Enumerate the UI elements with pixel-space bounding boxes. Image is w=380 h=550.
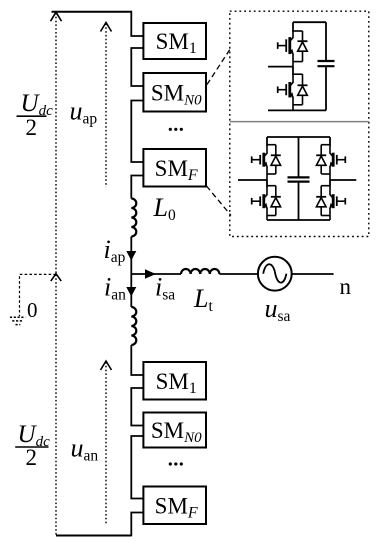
arrowhead Udc upper [51, 12, 62, 21]
wire top DC rail [52, 11, 132, 13]
wire bottom DC rail [56, 535, 131, 537]
wire SMF to bottom rail [131, 513, 143, 537]
IGBT Q5 (full-bridge upper-right) [316, 137, 345, 180]
voltage arrow u_ap (dotted) [105, 24, 107, 188]
wire FB right terminal [330, 179, 356, 181]
IGBT Q3 (full-bridge upper-left) [252, 137, 281, 180]
wire source to n [292, 273, 334, 275]
arrowhead u_ap [101, 23, 112, 32]
wire Lt to source [219, 273, 257, 275]
capacitor C2 (full-bridge) [298, 137, 300, 177]
wire HB mid terminal [268, 66, 293, 68]
wire FB left terminal [238, 179, 267, 181]
wire SMN0 to SMF (upper arm) [131, 101, 143, 163]
ellipsis dots upper arm [169, 128, 172, 131]
ellipsis dots lower arm [169, 462, 172, 465]
wire junction down [130, 274, 132, 307]
wire AC output [131, 273, 181, 275]
submodule SM1 upper [143, 23, 206, 59]
inductor L0 lower arm [131, 307, 136, 345]
wire HB top rail [293, 21, 326, 23]
inset border (dotted box) [230, 11, 369, 236]
wire dashed to ground node 0 [20, 274, 57, 316]
AC source u_sa [258, 257, 292, 291]
wire SMN0 to SMF (lower arm) [131, 436, 143, 499]
wire SM1 to SMN0 (lower arm) [131, 388, 143, 426]
wire SM1 to SMN0 (upper arm) [131, 48, 143, 86]
wire SMF to L0 [131, 176, 143, 199]
inset divider [230, 121, 369, 123]
current arrow i_an [126, 287, 136, 297]
IGBT Q6 (full-bridge lower-right) [316, 180, 345, 220]
IGBT Q4 (full-bridge lower-left) [252, 180, 281, 220]
submodule SMF upper [143, 149, 206, 187]
wire bus to SM1 upper stub [131, 11, 143, 36]
voltage arrow Udc/2 upper (dotted line) [55, 13, 57, 274]
svg-text:2: 2 [26, 445, 38, 470]
leader dash SMF to inset [207, 186, 232, 216]
arrowhead Udc lower [51, 274, 61, 282]
current arrow i_ap [126, 251, 136, 261]
IGBT Q2 (half-bridge lower) [278, 67, 308, 111]
wire L0b to SM1 lower [131, 345, 143, 375]
wire HB bottom rail [268, 109, 326, 111]
submodule SMN0 upper [143, 73, 206, 112]
inductor Lt [181, 269, 219, 274]
submodule SMN0 lower [143, 413, 206, 448]
svg-text:n: n [340, 274, 352, 299]
wire L0 to junction [130, 237, 132, 275]
voltage arrow Udc/2 lower (dotted line) [55, 275, 57, 536]
svg-text:2: 2 [26, 115, 38, 140]
wire FB bottom rail [267, 219, 330, 221]
leader dash SMN0 to inset [207, 47, 232, 85]
arrowhead u_an [101, 361, 112, 370]
capacitor C1 (half-bridge) [325, 22, 327, 61]
IGBT Q1 (half-bridge upper) [278, 22, 308, 66]
svg-text:0: 0 [27, 298, 38, 322]
submodule SMF lower [143, 487, 206, 525]
ground symbol [10, 316, 25, 318]
voltage arrow u_an (dotted) [105, 362, 107, 524]
wire FB top rail [267, 136, 330, 138]
current arrow i_sa [145, 269, 156, 279]
inductor L0 upper arm [131, 199, 136, 237]
submodule SM1 lower [143, 362, 206, 400]
